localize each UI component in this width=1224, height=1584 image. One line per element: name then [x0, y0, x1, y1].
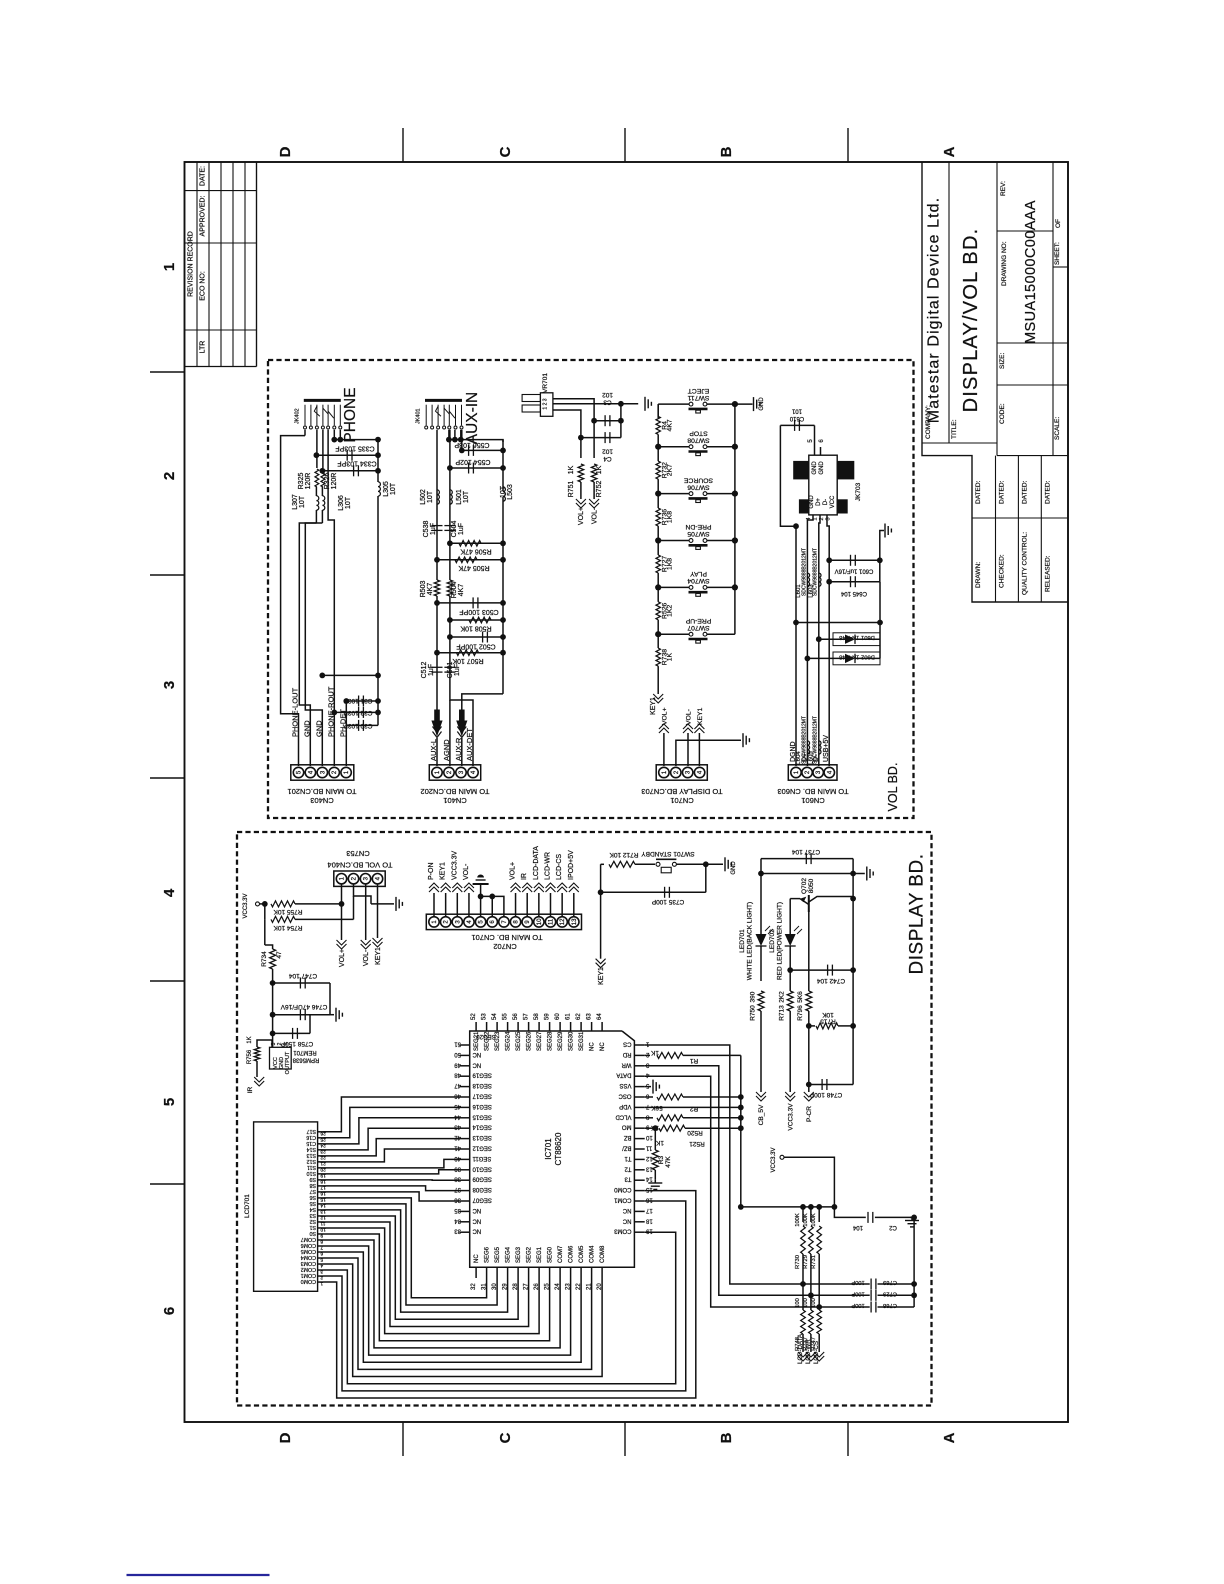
svg-text:33: 33	[454, 1228, 461, 1234]
junction GND rail	[319, 673, 325, 679]
svg-text:DATA: DATA	[616, 1072, 631, 1078]
svg-text:NC: NC	[472, 1061, 481, 1067]
svg-text:S1: S1	[309, 1224, 316, 1230]
resistor R713	[787, 991, 793, 1011]
svg-text:VCC3.3V: VCC3.3V	[243, 893, 249, 918]
svg-text:NC: NC	[472, 1051, 481, 1057]
svg-text:SEG16: SEG16	[472, 1103, 492, 1109]
wire R754 to pin2	[295, 918, 354, 920]
resistor R3	[652, 1150, 658, 1170]
svg-text:SEG3: SEG3	[516, 1246, 522, 1263]
resistors R748 R737 R747 series 100	[802, 1284, 804, 1310]
svg-text:CN403: CN403	[310, 796, 333, 805]
svg-text:COM3: COM3	[301, 1260, 316, 1266]
svg-text:VR701: VR701	[542, 373, 549, 393]
transistor Q702	[790, 898, 800, 900]
svg-text:COM6: COM6	[301, 1242, 316, 1248]
svg-text:VLCD: VLCD	[615, 1113, 632, 1119]
svg-text:13: 13	[645, 1165, 652, 1171]
svg-text:C504: C504	[451, 521, 458, 538]
svg-text:VSS: VSS	[619, 1082, 631, 1088]
svg-text:DATED:: DATED:	[975, 480, 982, 504]
wire jack pin to PHONE-LOUT	[304, 430, 306, 436]
svg-text:100: 100	[803, 1298, 809, 1308]
capacitor C601	[826, 557, 832, 563]
svg-text:COM3: COM3	[614, 1228, 632, 1234]
svg-text:SCALE:: SCALE:	[1054, 417, 1061, 440]
svg-text:C735 100P: C735 100P	[652, 898, 685, 905]
svg-text:LCD-CS: LCD-CS	[813, 1341, 820, 1364]
svg-text:R715: R715	[820, 1018, 836, 1025]
svg-text:CHECKED:: CHECKED:	[999, 554, 1006, 588]
svg-text:SEG10: SEG10	[472, 1165, 492, 1171]
svg-text:KEY1: KEY1	[440, 862, 447, 880]
net arrow VOL-	[683, 728, 693, 733]
svg-text:SW701 STANDBY: SW701 STANDBY	[641, 850, 695, 857]
svg-text:SDCW9888B2012MT: SDCW9888B2012MT	[801, 548, 807, 596]
svg-text:S14: S14	[307, 1146, 316, 1152]
svg-text:SEG31: SEG31	[579, 1031, 585, 1051]
svg-text:SEG29: SEG29	[558, 1031, 564, 1051]
net arrow IR	[254, 1077, 264, 1082]
switch SW706 SOURCE	[658, 493, 689, 495]
resistor R4	[657, 404, 659, 416]
svg-text:10T: 10T	[463, 490, 470, 503]
capacitors C769 C729 C768	[870, 1279, 872, 1290]
svg-text:R755 10K: R755 10K	[273, 908, 303, 915]
svg-text:R734: R734	[261, 951, 268, 967]
svg-text:S5: S5	[309, 1200, 316, 1206]
svg-text:LED702: LED702	[769, 929, 776, 953]
svg-text:51: 51	[454, 1041, 461, 1047]
svg-text:C601 1uF/16V: C601 1uF/16V	[835, 568, 874, 574]
svg-text:10T: 10T	[427, 490, 434, 503]
svg-text:S12: S12	[307, 1158, 316, 1164]
svg-text:EJECT: EJECT	[688, 387, 710, 394]
zone tick marks top edge	[402, 128, 404, 162]
svg-text:JK402: JK402	[294, 408, 300, 424]
capacitor C503	[437, 602, 503, 604]
svg-text:VOL-: VOL-	[686, 709, 693, 725]
svg-text:104: 104	[852, 1224, 863, 1230]
IC701 bottom pins 32-20	[475, 1267, 477, 1278]
svg-text:COM0: COM0	[614, 1186, 632, 1192]
svg-text:13: 13	[572, 918, 578, 925]
svg-text:DGND: DGND	[790, 741, 797, 762]
svg-text:S13: S13	[307, 1152, 316, 1158]
connector CN403 TO MAIN BD.CN201	[291, 765, 354, 780]
svg-text:10K: 10K	[822, 1011, 834, 1018]
signal arrow AUX-R	[459, 710, 465, 723]
wire bundle LCD to IC mid jogs	[324, 1159, 460, 1167]
svg-text:49: 49	[454, 1061, 461, 1067]
svg-text:4: 4	[320, 1263, 323, 1269]
svg-text:SEG4: SEG4	[506, 1246, 512, 1263]
svg-text:CN701: CN701	[670, 796, 693, 805]
svg-text:R1: R1	[689, 1057, 698, 1064]
svg-text:59: 59	[545, 1013, 551, 1020]
svg-text:120R: 120R	[305, 473, 312, 490]
net arrow VCC3.3V	[785, 1092, 795, 1097]
svg-text:LCD-WR: LCD-WR	[545, 852, 552, 880]
svg-text:REV:: REV:	[1000, 181, 1007, 196]
capacitor C742	[790, 969, 853, 971]
svg-text:SEG6: SEG6	[485, 1246, 491, 1263]
svg-text:SW707: SW707	[687, 624, 710, 631]
svg-text:SEG07: SEG07	[472, 1197, 492, 1203]
svg-text:C: C	[497, 1432, 514, 1443]
svg-text:COM7: COM7	[558, 1245, 564, 1263]
ground R3	[648, 1182, 662, 1184]
capacitor C31	[346, 700, 378, 702]
svg-text:2: 2	[320, 1275, 323, 1281]
svg-text:C503 100PF: C503 100PF	[459, 608, 498, 615]
svg-text:C747 104: C747 104	[289, 972, 318, 979]
ground top of switches	[735, 403, 753, 405]
resistor R503	[434, 580, 440, 596]
svg-text:PRE-UP: PRE-UP	[685, 617, 711, 624]
svg-text:VOL-: VOL-	[463, 863, 470, 880]
svg-text:SEG12: SEG12	[472, 1145, 492, 1151]
svg-text:CT88620: CT88620	[554, 1132, 563, 1165]
svg-text:1: 1	[320, 1281, 323, 1287]
svg-text:AUX-IN: AUX-IN	[464, 392, 481, 445]
svg-text:C769: C769	[883, 1279, 897, 1285]
svg-text:AGND: AGND	[442, 739, 451, 761]
svg-text:L307: L307	[292, 494, 299, 510]
phone left loop wires	[299, 523, 316, 740]
svg-text:LTR: LTR	[200, 341, 207, 354]
svg-text:S9: S9	[309, 1176, 316, 1182]
svg-text:COM1: COM1	[301, 1272, 316, 1278]
svg-text:S0: S0	[309, 1230, 316, 1236]
svg-text:CB_5V: CB_5V	[758, 1104, 765, 1125]
svg-text:1K8: 1K8	[667, 558, 674, 570]
VCC3.3V rail	[741, 1206, 835, 1208]
net arrow KEY1	[373, 938, 383, 943]
svg-text:DISPLAY BD.: DISPLAY BD.	[907, 854, 928, 975]
svg-text:1uF: 1uF	[454, 664, 461, 676]
resistor R506	[450, 542, 503, 544]
svg-text:1uF: 1uF	[458, 523, 465, 535]
inductor L306	[321, 487, 323, 496]
resistor R520	[645, 1117, 653, 1119]
wire C334 row	[322, 470, 378, 472]
svg-text:C512: C512	[421, 662, 428, 679]
svg-text:PHONE-ROUT: PHONE-ROUT	[326, 686, 335, 737]
svg-text:R325: R325	[298, 473, 305, 490]
page border frame	[185, 162, 1069, 1422]
svg-text:DATED:: DATED:	[999, 480, 1006, 504]
svg-text:SEG13: SEG13	[472, 1134, 492, 1140]
title block	[922, 162, 1068, 602]
svg-text:1uF: 1uF	[430, 523, 437, 535]
svg-text:AUX-L: AUX-L	[429, 739, 438, 761]
wire bundle LCD to IC top group	[324, 1097, 460, 1132]
inductor L501	[450, 490, 452, 504]
svg-text:C768: C768	[883, 1302, 897, 1308]
svg-text:3: 3	[320, 1269, 323, 1275]
svg-text:1K: 1K	[655, 1139, 664, 1146]
svg-text:100K: 100K	[803, 1213, 809, 1227]
svg-text:TO MAIN BD.CN202: TO MAIN BD.CN202	[420, 787, 489, 796]
svg-text:32: 32	[471, 1283, 477, 1290]
svg-text:OUTPUT: OUTPUT	[285, 1051, 291, 1074]
jack JK401	[425, 399, 462, 402]
wire DATA bus	[645, 1076, 870, 1307]
svg-text:NC: NC	[474, 1254, 480, 1263]
svg-text:C746 47UF/16V: C746 47UF/16V	[280, 1003, 327, 1010]
net arrow VOL+ under CN404	[337, 940, 347, 945]
svg-text:63: 63	[587, 1013, 593, 1020]
svg-text:GND: GND	[819, 461, 825, 475]
svg-text:KEY1: KEY1	[650, 697, 657, 715]
svg-text:R503: R503	[420, 581, 427, 598]
resistor R736	[657, 494, 659, 508]
svg-text:10T: 10T	[299, 495, 306, 508]
svg-text:4K7: 4K7	[667, 419, 674, 431]
net arrow P-CR	[808, 1026, 810, 1085]
revision record table	[196, 162, 198, 367]
svg-text:OF: OF	[1055, 219, 1062, 228]
svg-text:SEG1: SEG1	[537, 1246, 543, 1263]
svg-text:D: D	[277, 1432, 294, 1443]
svg-text:JK401: JK401	[416, 408, 422, 424]
svg-text:IR: IR	[247, 1086, 254, 1093]
svg-text:R507 10K: R507 10K	[452, 657, 483, 664]
svg-text:60: 60	[555, 1013, 561, 1020]
svg-text:SW706: SW706	[687, 483, 710, 490]
svg-text:R754 10K: R754 10K	[273, 924, 303, 931]
svg-text:RD: RD	[622, 1051, 631, 1057]
capacitor C747	[270, 980, 276, 986]
svg-text:COM5: COM5	[579, 1245, 585, 1263]
svg-text:10T: 10T	[500, 485, 507, 498]
svg-text:SEG24: SEG24	[506, 1031, 512, 1051]
svg-text:QUALITY CONTROL:: QUALITY CONTROL:	[1022, 532, 1029, 595]
svg-text:DATE:: DATE:	[200, 166, 207, 186]
svg-text:7: 7	[320, 1244, 323, 1250]
svg-text:OSC: OSC	[618, 1093, 632, 1099]
svg-text:D-: D-	[813, 754, 820, 762]
capacitor C758	[270, 1031, 276, 1037]
blue mark bottom left	[127, 1574, 270, 1576]
svg-text:S8: S8	[309, 1182, 316, 1188]
svg-text:C31 103P: C31 103P	[344, 697, 373, 704]
svg-text:COM6: COM6	[569, 1245, 575, 1263]
svg-text:47: 47	[454, 1082, 461, 1088]
svg-text:JK703: JK703	[855, 482, 862, 501]
svg-text:SEG19: SEG19	[472, 1072, 492, 1078]
svg-text:35: 35	[454, 1207, 461, 1213]
svg-text:64: 64	[597, 1013, 603, 1020]
capacitor C334	[353, 465, 355, 476]
net arrow VOL-	[361, 940, 371, 945]
svg-text:58: 58	[534, 1013, 540, 1020]
svg-text:1K: 1K	[667, 652, 674, 661]
svg-text:5K6: 5K6	[797, 991, 804, 1003]
svg-text:100K: 100K	[795, 1213, 801, 1227]
resistor R2	[645, 1096, 653, 1098]
svg-text:S4: S4	[309, 1206, 316, 1212]
inductor L605	[819, 741, 821, 754]
ground for C601/C645	[880, 531, 884, 582]
svg-text:A: A	[941, 146, 958, 157]
CN701 pin arrows and labels	[433, 893, 435, 916]
svg-text:DRAWN:: DRAWN:	[975, 562, 982, 588]
IC701 right pins 1-19	[634, 1044, 644, 1046]
capacitor C538	[432, 525, 443, 527]
net arrow KEY1	[694, 728, 704, 733]
capacitor C32	[334, 711, 378, 713]
VR701 wiring	[553, 399, 594, 421]
capacitor C501	[444, 666, 455, 668]
svg-text:KEY1: KEY1	[598, 967, 605, 985]
svg-text:D602 1N4148: D602 1N4148	[839, 654, 875, 660]
jack JK402	[304, 399, 341, 402]
svg-text:SEG18: SEG18	[472, 1082, 492, 1088]
wire C556 row	[462, 449, 503, 451]
svg-text:S11: S11	[307, 1164, 316, 1170]
svg-text:R750: R750	[750, 1005, 757, 1021]
potentiometer VR701	[540, 393, 553, 417]
svg-text:PRE-DN: PRE-DN	[685, 523, 711, 530]
right rail down	[911, 1215, 917, 1221]
svg-text:BZ/: BZ/	[622, 1145, 632, 1151]
svg-text:R505 47K: R505 47K	[458, 564, 489, 571]
svg-text:PHONE: PHONE	[342, 387, 359, 442]
switch SW704 PLAY	[658, 586, 689, 588]
svg-text:62: 62	[576, 1013, 582, 1020]
wire bundle bottom U traces	[324, 1198, 487, 1298]
svg-text:C645 104: C645 104	[840, 590, 867, 596]
svg-text:TO VOL BD.CN404: TO VOL BD.CN404	[327, 861, 392, 870]
zone tick marks bottom edge	[402, 1422, 404, 1456]
svg-text:CN702: CN702	[493, 942, 516, 951]
resistor R796	[808, 910, 810, 991]
resistor R715	[809, 1025, 815, 1027]
capacitor C645	[826, 579, 832, 585]
capacitor C735	[600, 864, 602, 892]
phone wires top	[339, 430, 341, 440]
ground at VR701	[644, 397, 646, 411]
svg-text:9: 9	[320, 1232, 323, 1238]
svg-text:COM7: COM7	[301, 1236, 316, 1242]
svg-text:1K: 1K	[247, 1036, 253, 1043]
svg-text:R520: R520	[687, 1129, 703, 1136]
svg-text:VDP: VDP	[619, 1103, 631, 1109]
svg-text:C737 104: C737 104	[792, 848, 821, 855]
svg-text:8050: 8050	[808, 878, 815, 893]
svg-text:GND: GND	[759, 397, 765, 411]
svg-text:6: 6	[320, 1251, 323, 1257]
svg-text:DISPLAY/VOL BD.: DISPLAY/VOL BD.	[960, 228, 982, 413]
diode D601	[816, 636, 822, 642]
svg-text:SEG14: SEG14	[472, 1124, 492, 1130]
inductor L307	[315, 487, 317, 496]
ground C746	[329, 983, 331, 1015]
svg-text:Matestar Digital Device Ltd: Matestar Digital Device Ltd.	[926, 197, 943, 423]
net arrow VOL+	[576, 499, 586, 504]
connector TO MAIN BD. CN701	[426, 914, 581, 929]
svg-text:2: 2	[161, 472, 178, 480]
svg-text:CS: CS	[623, 1041, 631, 1047]
svg-text:NC: NC	[600, 1042, 606, 1051]
wire C335 row	[316, 454, 378, 456]
svg-text:120R: 120R	[331, 473, 338, 490]
svg-text:1K: 1K	[650, 1049, 659, 1056]
svg-text:100K: 100K	[811, 1213, 817, 1227]
capacitor C610	[814, 425, 816, 447]
svg-text:B: B	[718, 146, 735, 157]
resistor R712	[601, 863, 604, 865]
svg-text:61: 61	[566, 1013, 572, 1020]
svg-text:48: 48	[454, 1072, 461, 1078]
svg-text:SOURCE: SOURCE	[684, 476, 714, 483]
inductor L604	[807, 741, 809, 754]
svg-text:SEG30: SEG30	[569, 1031, 575, 1051]
capacitor C746	[270, 1012, 276, 1018]
ground CN404	[371, 903, 394, 905]
svg-text:CN401: CN401	[443, 796, 466, 805]
svg-text:17: 17	[645, 1207, 652, 1213]
svg-text:R713: R713	[779, 1005, 786, 1021]
connector TO MAIN BD.CN202	[429, 765, 480, 780]
svg-text:1K8: 1K8	[667, 511, 674, 523]
svg-text:A: A	[941, 1432, 958, 1443]
inductor L601	[807, 573, 809, 586]
svg-text:NC: NC	[622, 1217, 631, 1223]
svg-text:SEG26: SEG26	[527, 1031, 533, 1051]
svg-text:10T: 10T	[345, 496, 352, 509]
inductor L305 on right rail	[377, 440, 379, 482]
svg-text:53: 53	[482, 1013, 488, 1020]
svg-text:L503: L503	[507, 484, 514, 500]
svg-text:R508 10K: R508 10K	[460, 625, 491, 632]
resistor R752	[593, 421, 595, 458]
svg-text:PLAY: PLAY	[690, 570, 707, 577]
svg-text:1K: 1K	[568, 465, 575, 474]
svg-text:COM0: COM0	[301, 1278, 316, 1284]
svg-text:IC701: IC701	[544, 1138, 553, 1160]
switch SW705 PRE-DN	[658, 540, 689, 542]
svg-text:SEG28: SEG28	[548, 1031, 554, 1051]
net arrow CB_5V	[756, 1092, 766, 1097]
svg-text:GND: GND	[314, 720, 323, 737]
svg-text:54: 54	[492, 1013, 498, 1020]
svg-text:C502 100PF: C502 100PF	[456, 643, 495, 650]
CN404 wires	[341, 884, 343, 904]
svg-text:TO MAIN BD. CN701: TO MAIN BD. CN701	[471, 933, 542, 942]
VCC3.3V node	[256, 902, 260, 906]
capacitor C504	[444, 525, 455, 527]
svg-text:T2: T2	[624, 1165, 632, 1171]
svg-text:4: 4	[161, 888, 178, 897]
R1 bus vertical	[740, 1055, 742, 1207]
svg-text:VCC3.3V: VCC3.3V	[451, 850, 458, 880]
svg-text:VCC3.3V: VCC3.3V	[771, 1147, 777, 1172]
svg-text:TO MAIN BD. CN603: TO MAIN BD. CN603	[777, 787, 848, 796]
svg-text:REVISION RECORD: REVISION RECORD	[188, 231, 195, 297]
svg-text:SEG11: SEG11	[472, 1155, 492, 1161]
svg-text:NC: NC	[472, 1217, 481, 1223]
svg-text:COM2: COM2	[301, 1266, 316, 1272]
svg-text:WR: WR	[621, 1061, 632, 1067]
svg-text:6: 6	[161, 1307, 178, 1315]
svg-text:DATED:: DATED:	[1044, 480, 1051, 504]
connector TO VOL BD.CN404	[334, 871, 385, 886]
IC IC701 LC75853	[470, 1031, 635, 1267]
